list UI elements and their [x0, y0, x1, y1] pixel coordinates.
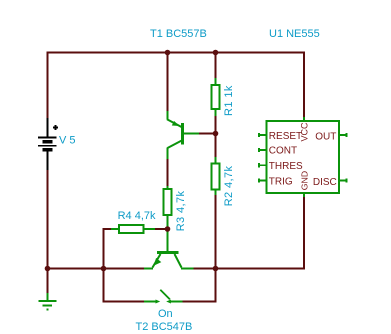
pin CONT stub [259, 148, 267, 152]
svg-text:V 5: V 5 [59, 135, 76, 147]
wire ground stub [47, 269, 49, 295]
svg-text:U1 NE555: U1 NE555 [269, 28, 320, 40]
node junction top T1 emitter [165, 50, 171, 56]
node junction bottom switch left [101, 266, 107, 272]
svg-text:T2 BC547B: T2 BC547B [136, 321, 193, 333]
resistor R2 [212, 157, 220, 195]
svg-text:TRIG: TRIG [269, 177, 293, 188]
resistor R4 [111, 225, 155, 233]
battery V1 symbol [38, 118, 57, 170]
svg-text:On: On [158, 308, 173, 320]
wire T1 emitter drop [167, 53, 169, 113]
wire bottom rail left [47, 268, 145, 270]
node junction bottom battery [45, 266, 51, 272]
ground [39, 293, 57, 310]
wire R1 top drop [215, 53, 217, 80]
wire R4 left to bottom rail [104, 229, 113, 269]
wire R4 right to node B [154, 228, 168, 230]
wire R1 bottom to node A to R2 top [215, 115, 217, 159]
switch S1 [144, 290, 183, 304]
svg-text:R3 4,7k: R3 4,7k [175, 190, 187, 231]
svg-text:R4 4,7k: R4 4,7k [118, 210, 156, 222]
wire U1 GND drop [303, 196, 305, 270]
svg-text:THRES: THRES [269, 161, 303, 172]
svg-text:T1 BC557B: T1 BC557B [150, 28, 207, 40]
wire battery positive drop [47, 53, 49, 121]
svg-text:R2 4,7k: R2 4,7k [223, 165, 235, 206]
transistor T2 BC547B (NPN) [144, 228, 194, 269]
wire top rail V+ [47, 52, 306, 54]
svg-text:OUT: OUT [315, 131, 336, 142]
pin THRES stub [259, 163, 267, 167]
wire bottom rail right [193, 268, 305, 270]
op IC U1 NE555 box [267, 121, 340, 193]
node B junction R3 R4 base [165, 226, 171, 232]
resistor R1 [212, 78, 220, 116]
wire R2 bottom to bottom rail [215, 194, 217, 269]
battery plus sign [53, 125, 58, 130]
resistor R3 [164, 186, 172, 230]
pin DISC stub [339, 179, 347, 183]
svg-text:RESET: RESET [269, 131, 302, 142]
wire T1 base to node A [199, 133, 217, 135]
pin VCC stub [303, 117, 305, 121]
svg-text:DISC: DISC [313, 177, 337, 188]
svg-text:VCC: VCC [299, 122, 309, 142]
svg-text:R1 1k: R1 1k [223, 85, 235, 116]
node A junction R1 R2 base [213, 131, 219, 137]
wire T1 collector to R3 [167, 158, 169, 187]
wire battery negative to bottom rail [47, 168, 49, 269]
svg-text:GND: GND [299, 171, 309, 190]
transistor T1 BC557B (PNP) [167, 111, 199, 159]
wire switch loop left [104, 269, 145, 302]
wire switch loop right [182, 269, 216, 302]
wire U1 VCC drop [303, 53, 305, 119]
pin TRIG stub [259, 179, 267, 183]
pin OUT stub [339, 133, 347, 137]
pin RESET stub [259, 133, 267, 137]
pin GND stub [303, 193, 305, 197]
node junction top R1 [213, 50, 219, 56]
node junction bottom R2 [213, 266, 219, 272]
svg-text:CONT: CONT [269, 145, 297, 156]
